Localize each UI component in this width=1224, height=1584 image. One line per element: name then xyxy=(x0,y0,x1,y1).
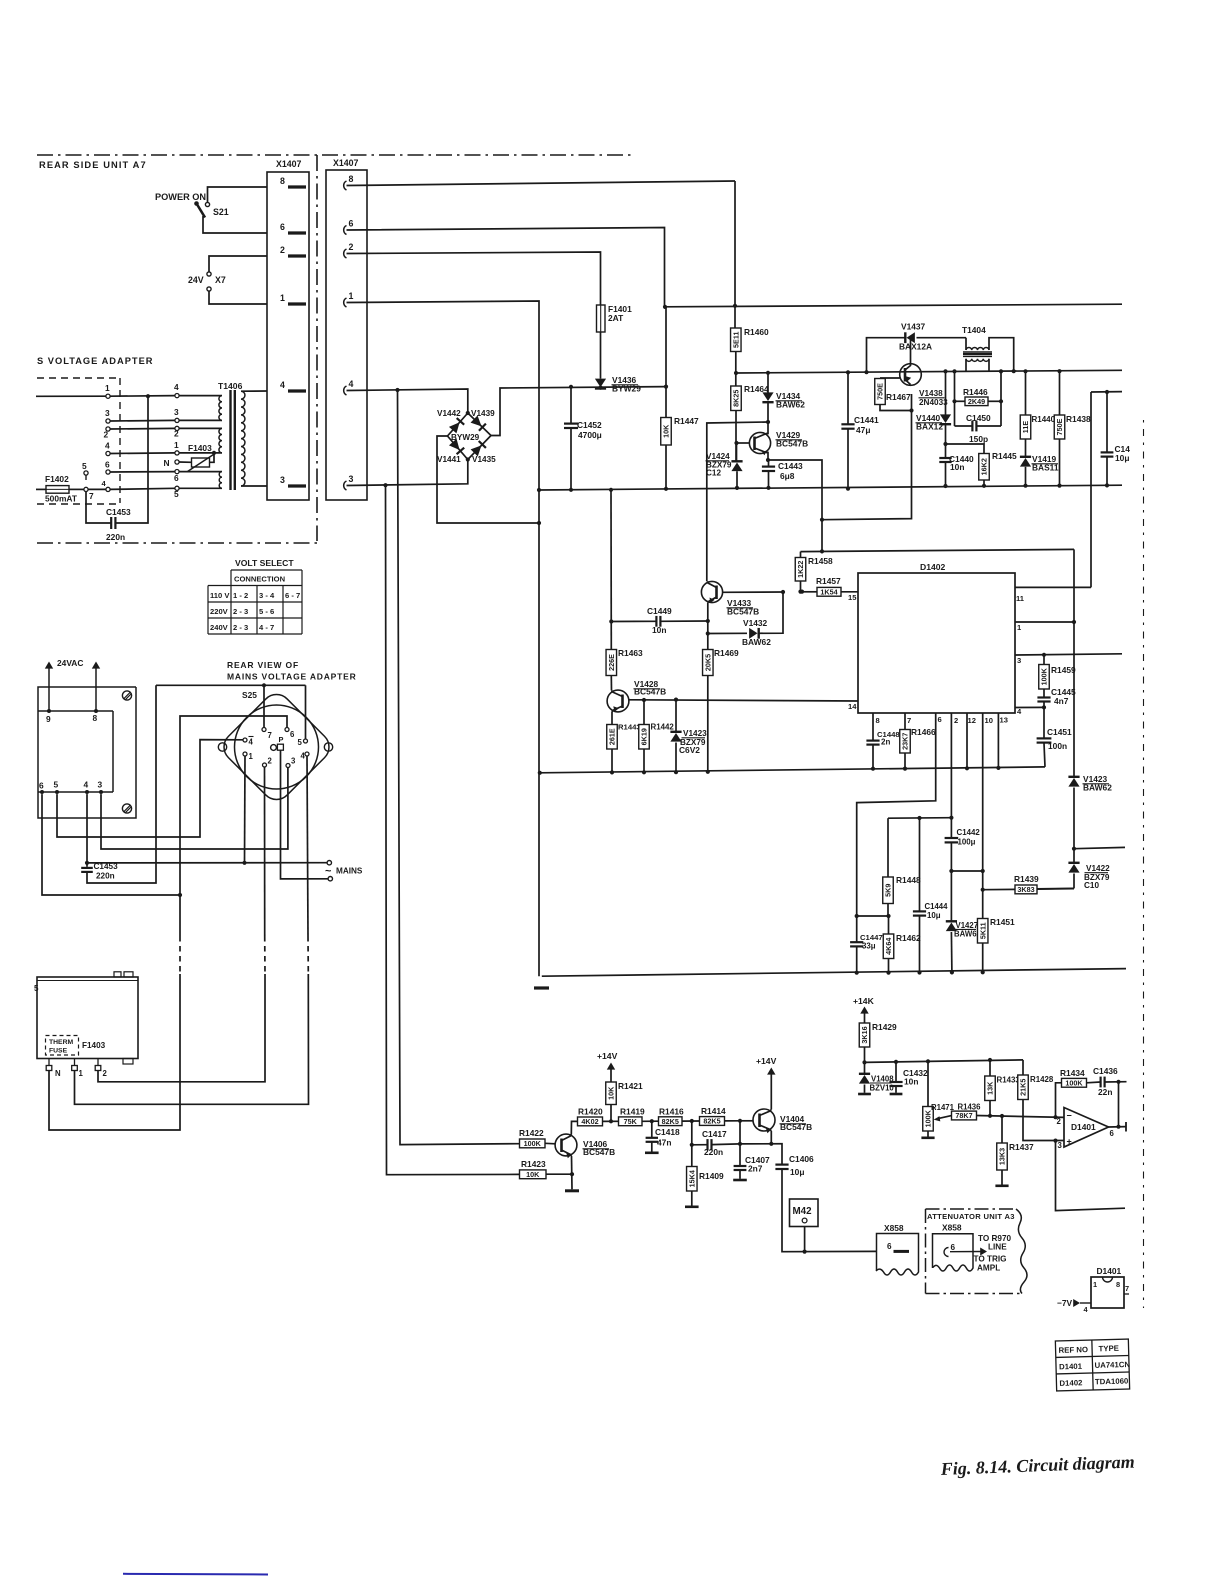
svg-text:8K25: 8K25 xyxy=(732,390,741,407)
wire V1428 base to D1402 pin 14 xyxy=(629,700,858,701)
svg-text:R1469: R1469 xyxy=(714,648,739,658)
dash-dot frame right edge of REAR SIDE UNIT A7 xyxy=(316,155,318,541)
svg-text:R1440: R1440 xyxy=(1032,415,1056,424)
resistor R1446 2K49 xyxy=(965,397,988,406)
svg-text:+: + xyxy=(1067,1137,1072,1147)
svg-text:3K83: 3K83 xyxy=(1017,885,1034,894)
svg-text:500mAT: 500mAT xyxy=(45,494,78,504)
junction pin8 column on top rail xyxy=(733,304,737,308)
svg-text:13K: 13K xyxy=(986,1081,995,1095)
svg-text:750E: 750E xyxy=(1055,418,1064,435)
svg-text:3: 3 xyxy=(291,757,296,766)
transformer terminals N 1 2 xyxy=(48,1059,50,1066)
capacitor C1449 10n xyxy=(611,620,656,622)
svg-text:R1429: R1429 xyxy=(872,1022,897,1032)
svg-text:C10: C10 xyxy=(1084,881,1099,890)
junction bridge bottom vertex xyxy=(466,457,470,461)
capacitor C1451 100n xyxy=(1043,707,1045,738)
capacitor C1447 33u xyxy=(850,941,863,943)
wire X1407-2 pin 4 to bridge xyxy=(347,389,468,413)
svg-text:5: 5 xyxy=(82,461,87,471)
svg-text:10K: 10K xyxy=(607,1086,616,1100)
resistor R1428 21K5 xyxy=(1022,1060,1024,1075)
svg-text:R1458: R1458 xyxy=(808,556,833,566)
svg-text:LINE: LINE xyxy=(988,1243,1007,1252)
diode V1441 xyxy=(449,439,464,454)
junction V1429 emitter node xyxy=(766,458,770,462)
connector X1407 right half xyxy=(326,170,367,500)
svg-text:1: 1 xyxy=(349,291,354,301)
svg-text:100K: 100K xyxy=(924,1109,933,1127)
resistor R1451 5K11 xyxy=(977,919,988,944)
transistor V1433 BC547B xyxy=(701,581,722,602)
socket S25 right ear xyxy=(324,743,332,751)
svg-text:4: 4 xyxy=(349,379,354,389)
plug pin 1 wire to socket pin 4 xyxy=(106,394,110,398)
svg-text:C1441: C1441 xyxy=(854,415,879,425)
svg-text:47n: 47n xyxy=(657,1138,671,1148)
wire 0V rail upper xyxy=(539,485,1122,490)
plug pin 4 wire to socket pin 1 xyxy=(106,451,110,455)
svg-text:3: 3 xyxy=(1058,1141,1063,1150)
blue scan mark xyxy=(123,1573,268,1576)
svg-text:R1419: R1419 xyxy=(620,1107,645,1117)
svg-text:R1433: R1433 xyxy=(997,1076,1021,1085)
page edge dash-dot vertical xyxy=(1143,420,1145,1308)
wire C1447 node to R1448 bottom xyxy=(857,915,889,917)
X1407 left pin 1 xyxy=(288,302,306,305)
svg-text:F1402: F1402 xyxy=(45,474,69,484)
svg-text:REAR VIEW OF: REAR VIEW OF xyxy=(227,660,299,670)
junction pin1 column / 0V rail xyxy=(537,488,541,492)
svg-text:C1444: C1444 xyxy=(925,902,949,911)
svg-text:R1436: R1436 xyxy=(958,1103,982,1112)
svg-text:C1418: C1418 xyxy=(655,1127,680,1137)
svg-text:R1463: R1463 xyxy=(618,648,643,658)
diode V1435 xyxy=(471,441,486,456)
svg-text:15K4: 15K4 xyxy=(687,1170,696,1187)
svg-text:10K: 10K xyxy=(662,424,671,438)
svg-text:BC547B: BC547B xyxy=(780,1122,812,1132)
MAINS terminals xyxy=(327,861,331,865)
svg-text:5: 5 xyxy=(54,780,59,790)
switch S21 xyxy=(194,201,199,206)
resistor R1439 3K83 xyxy=(983,888,1015,890)
svg-text:+14V: +14V xyxy=(756,1056,777,1066)
svg-text:R1434: R1434 xyxy=(1060,1068,1085,1078)
svg-text:10μ: 10μ xyxy=(790,1167,804,1177)
junction V1434 top on rail xyxy=(766,371,770,375)
wire V1404 emitter xyxy=(770,1131,772,1144)
wire F1401 to V1436 xyxy=(600,332,602,379)
svg-text:M42: M42 xyxy=(793,1206,813,1217)
svg-text:33μ: 33μ xyxy=(862,942,876,951)
op-amp D1401 xyxy=(1064,1108,1109,1148)
svg-text:R1459: R1459 xyxy=(1051,665,1076,675)
svg-text:R1447: R1447 xyxy=(674,416,699,426)
svg-text:2: 2 xyxy=(268,757,273,766)
terminal 5 xyxy=(84,471,88,475)
junction V1437 column on rail xyxy=(864,370,868,374)
wire S25 pin2 down to transformer pin 2 xyxy=(264,767,266,936)
long wire pin4 column down to R1422 xyxy=(398,390,520,1145)
X1407 left pin 3 xyxy=(288,484,306,487)
svg-text:VOLT SELECT: VOLT SELECT xyxy=(235,558,294,568)
resistor R1409 15K4 xyxy=(687,1167,698,1192)
resistor R1460 5E11 xyxy=(731,328,742,352)
svg-text:−: − xyxy=(1067,1111,1072,1121)
svg-text:2: 2 xyxy=(104,430,109,440)
capacitor C1406 10u xyxy=(775,1163,788,1165)
svg-text:REAR SIDE UNIT A7: REAR SIDE UNIT A7 xyxy=(39,160,147,170)
svg-text:V1439: V1439 xyxy=(471,409,495,418)
svg-text:R1416: R1416 xyxy=(659,1107,684,1117)
wire terminal 2 stub xyxy=(97,1071,99,1072)
wire X1407-2 pin 8 to R1460 column xyxy=(347,181,736,186)
svg-text:R1442: R1442 xyxy=(651,723,675,732)
svg-text:6: 6 xyxy=(349,219,354,229)
svg-text:TDA1060: TDA1060 xyxy=(1095,1377,1129,1387)
resistor R1440 11E xyxy=(1025,371,1027,415)
svg-text:V1423: V1423 xyxy=(683,729,707,738)
wire bridge left vertex to node xyxy=(437,436,539,523)
wire V1406 collector xyxy=(571,1121,577,1134)
svg-text:22n: 22n xyxy=(1098,1087,1112,1097)
svg-text:BZV10: BZV10 xyxy=(870,1084,895,1093)
svg-text:3: 3 xyxy=(98,780,103,790)
svg-text:100n: 100n xyxy=(1048,741,1067,751)
svg-text:10μ: 10μ xyxy=(927,911,941,920)
svg-text:BC547B: BC547B xyxy=(634,687,666,697)
24VAC arrows xyxy=(48,668,50,711)
svg-text:8: 8 xyxy=(876,716,880,725)
svg-text:C1443: C1443 xyxy=(778,461,803,471)
wire strip pin 4 to MAINS and C1453 xyxy=(86,794,88,861)
plug pin 2 wire to socket pin 2 xyxy=(106,427,110,431)
junction R1460 to 373 rail xyxy=(734,371,738,375)
zener V1424 BZX79 C12 xyxy=(736,443,738,461)
diode V1432 BAW62 xyxy=(708,632,747,634)
svg-text:1: 1 xyxy=(280,293,285,303)
diode V1436 BYW29 xyxy=(595,379,606,388)
svg-text:10n: 10n xyxy=(652,625,666,635)
capacitor C1432 10n xyxy=(894,1060,898,1064)
svg-text:6 - 7: 6 - 7 xyxy=(285,591,300,600)
resistor R1457 1K54 xyxy=(802,591,817,593)
junction C1439 top xyxy=(1105,390,1109,394)
wire switch to X1407 pin 8 xyxy=(208,187,268,202)
svg-text:R1409: R1409 xyxy=(699,1171,724,1181)
svg-text:R1460: R1460 xyxy=(744,327,769,337)
svg-text:S VOLTAGE ADAPTER: S VOLTAGE ADAPTER xyxy=(37,356,154,366)
wire pin3 down to lower route xyxy=(1053,1139,1057,1143)
svg-text:R1446: R1446 xyxy=(963,387,988,397)
T1406 secondary winding xyxy=(241,391,245,486)
junction pin3 wire / long column to R1423 xyxy=(383,483,387,487)
wires T1406 secondary to X1407 xyxy=(241,390,267,392)
svg-text:R1437: R1437 xyxy=(1009,1142,1034,1152)
wire top rail from pin6 to right edge xyxy=(665,304,1123,307)
svg-text:8: 8 xyxy=(349,174,354,184)
svg-text:3K16: 3K16 xyxy=(860,1026,869,1043)
svg-text:THERM: THERM xyxy=(49,1039,74,1046)
wire strip pin 6 xyxy=(42,794,180,895)
wire R1446 C1450 right column xyxy=(1000,371,1002,426)
svg-text:N: N xyxy=(164,458,170,468)
svg-text:14: 14 xyxy=(848,702,857,711)
resistor R1458 1K22 xyxy=(800,552,802,558)
svg-text:T1404: T1404 xyxy=(962,325,986,335)
junction R1464 V1424 V1429 base xyxy=(734,441,738,445)
svg-text:10K: 10K xyxy=(526,1170,540,1179)
wires T1406 primary to socket pins xyxy=(179,395,222,397)
svg-text:5 - 6: 5 - 6 xyxy=(259,607,274,616)
svg-text:R1421: R1421 xyxy=(618,1081,643,1091)
wire V1437 branch xyxy=(867,338,906,373)
wire C1442 to pin10 column xyxy=(951,870,982,872)
wire junction column R1409 xyxy=(691,1121,693,1167)
socket S25 left ear xyxy=(218,743,226,751)
svg-text:4: 4 xyxy=(249,738,254,747)
D1402 pin 4 wire xyxy=(1015,706,1044,708)
svg-text:R1457: R1457 xyxy=(816,576,841,586)
resistor R1436 78K7 xyxy=(952,1111,977,1120)
wire lower rail xyxy=(542,969,1126,977)
X1407 left pin 2 xyxy=(288,254,306,257)
wire V1422 to R1439 xyxy=(1037,887,1074,890)
svg-text:6: 6 xyxy=(290,730,295,739)
transistor V1406 BC547B xyxy=(555,1134,577,1156)
junction pin4 wire / long column to R1422 xyxy=(395,388,399,392)
svg-text:6: 6 xyxy=(938,715,942,724)
wire emitter node to R1458 top wire xyxy=(768,460,822,551)
junction C1447 R1448 node xyxy=(855,914,859,918)
wire S25 pin4 down to transformer pin 1 xyxy=(307,756,308,936)
X1407 left pin 4 xyxy=(288,389,306,392)
svg-text:4: 4 xyxy=(174,382,179,392)
wire 10V rail xyxy=(865,1060,1024,1063)
svg-text:7: 7 xyxy=(907,716,911,725)
resistor R1459 100K xyxy=(1043,655,1045,665)
wire pin11 riser and top xyxy=(1090,392,1092,587)
ground at bottom of pin1 column xyxy=(534,986,549,989)
svg-text:V1422: V1422 xyxy=(1086,864,1110,873)
svg-text:2AT: 2AT xyxy=(608,313,624,323)
svg-text:F1403: F1403 xyxy=(188,443,212,453)
svg-text:F1403: F1403 xyxy=(82,1041,106,1050)
wire strip pin 5 to S25 pin 4bar xyxy=(57,740,243,837)
potentiometer R1471 100K xyxy=(926,1059,930,1063)
svg-text:V1437: V1437 xyxy=(901,322,926,332)
diode V1440 BAX12 xyxy=(945,371,947,415)
svg-text:2K49: 2K49 xyxy=(968,397,985,406)
svg-text:R1439: R1439 xyxy=(1014,874,1039,884)
svg-text:C1453: C1453 xyxy=(106,507,131,517)
svg-text:2n: 2n xyxy=(881,738,890,747)
junction V1422 branch xyxy=(1072,847,1076,851)
resistor R1464 8K25 xyxy=(731,386,742,411)
zener V1422 BZX79 C10 xyxy=(1073,849,1075,863)
resistor R1416 82K5 xyxy=(659,1117,683,1126)
diode V1439 xyxy=(471,415,486,430)
transistor V1428 BC547B xyxy=(607,690,629,712)
junction V1434 bottom node xyxy=(766,420,770,424)
wire pin1 V1423 column xyxy=(1073,549,1075,776)
wire X1407-2 pin 2 to fuse F1401 xyxy=(347,252,601,305)
svg-text:6: 6 xyxy=(280,222,285,232)
svg-text:AMPL: AMPL xyxy=(977,1264,1000,1273)
socket S25 inner circle xyxy=(235,705,319,789)
X1407 right pin 1 xyxy=(344,298,347,307)
svg-text:6: 6 xyxy=(1110,1129,1115,1138)
wire R1446 C1450 left column xyxy=(954,371,956,426)
plug pin 7 wire to socket pin 5 xyxy=(106,487,110,491)
svg-text:13: 13 xyxy=(1000,716,1008,725)
svg-text:3: 3 xyxy=(174,407,179,417)
wire X7 to X1407 pin 2 xyxy=(209,256,267,272)
svg-text:BAS11: BAS11 xyxy=(1032,463,1059,473)
svg-text:1: 1 xyxy=(174,440,179,450)
svg-text:POWER ON: POWER ON xyxy=(155,192,206,202)
junction V1436 on +rail xyxy=(598,386,602,390)
wire branch to right edge xyxy=(1074,847,1125,848)
svg-text:4 - 7: 4 - 7 xyxy=(259,623,274,632)
plug pin 3 wire to socket pin 3 xyxy=(106,419,110,423)
svg-text:P: P xyxy=(279,735,284,744)
svg-text:R1423: R1423 xyxy=(521,1159,546,1169)
diode V1419 BAS11 xyxy=(1025,439,1027,457)
svg-text:R1428: R1428 xyxy=(1030,1075,1054,1084)
dashed box mains voltage adapter xyxy=(37,377,120,379)
svg-text:24VAC: 24VAC xyxy=(57,658,83,668)
svg-text:D1402: D1402 xyxy=(1059,1378,1083,1388)
svg-text:BC547B: BC547B xyxy=(727,607,759,617)
svg-text:BC547B: BC547B xyxy=(583,1147,615,1157)
junction V1433 base wire xyxy=(781,590,785,594)
resistor R1448 5K9 xyxy=(887,818,889,877)
svg-text:8: 8 xyxy=(280,176,285,186)
junction C1441 top on rail xyxy=(846,370,850,374)
svg-text:C6V2: C6V2 xyxy=(679,745,700,755)
svg-text:C1417: C1417 xyxy=(702,1129,727,1139)
svg-text:BAX12A: BAX12A xyxy=(899,342,932,352)
wire V1428 emitter to R1443 xyxy=(611,712,613,725)
svg-text:15: 15 xyxy=(848,593,857,602)
transistor V1429 BC547B xyxy=(749,432,770,453)
wire S25 pin6 down to transformer N xyxy=(180,716,287,936)
fuse F1402 500mAT xyxy=(36,488,46,490)
svg-text:7: 7 xyxy=(89,491,94,501)
resistor R1414 82K5 xyxy=(700,1117,725,1126)
zener V1423 BZX79 C6V2 xyxy=(674,698,678,702)
X1407 right pin 4 xyxy=(344,386,347,395)
svg-text:C1451: C1451 xyxy=(1047,727,1072,737)
svg-text:−7V: −7V xyxy=(1057,1298,1073,1308)
wire T1404 secondary left to rail xyxy=(965,359,967,372)
junction strip pin6 wire xyxy=(178,893,182,897)
svg-text:2 - 3: 2 - 3 xyxy=(233,607,248,616)
junction R1434 to pin2 xyxy=(1053,1115,1057,1119)
wire C1453 node across top xyxy=(156,684,306,686)
junction D1402 pin 1 xyxy=(1072,620,1076,624)
svg-text:1: 1 xyxy=(1093,1280,1097,1289)
table REF NO TYPE xyxy=(1055,1339,1129,1391)
bridge rectifier outline xyxy=(448,413,492,460)
wire R1458 top to pin1 column xyxy=(801,549,1075,551)
junction pin1 column / bridge left wire xyxy=(537,521,541,525)
capacitor C1441 47u xyxy=(847,372,849,423)
junction V1432 node xyxy=(706,631,710,635)
thermal fuse label box xyxy=(46,1036,79,1056)
svg-text:ATTENUATOR UNIT A3: ATTENUATOR UNIT A3 xyxy=(927,1212,1015,1221)
svg-text:S25: S25 xyxy=(242,690,257,700)
svg-text:100K: 100K xyxy=(1065,1078,1083,1087)
resistor R1422 100K xyxy=(520,1139,546,1148)
svg-text:+14V: +14V xyxy=(597,1051,618,1061)
capacitor C1452 4700u xyxy=(570,387,572,423)
screw bottom xyxy=(122,804,131,813)
wire switch to X1407 pin 6 xyxy=(203,216,267,233)
junction R1467 bottom to emitter column xyxy=(909,408,913,412)
svg-text:2: 2 xyxy=(280,245,285,255)
svg-text:R1438: R1438 xyxy=(1066,414,1091,424)
wire to MAINS upper terminal xyxy=(87,862,327,864)
terminal pins 9 8 6 5 4 3 xyxy=(47,709,51,713)
measuring point M42 xyxy=(790,1199,819,1227)
resistor R1429 3K16 xyxy=(859,1023,870,1047)
wire emitter node to V1438 emitter xyxy=(822,394,912,520)
svg-text:1: 1 xyxy=(105,383,110,393)
wire terminal 7 to plug bottom pin xyxy=(88,488,106,490)
svg-text:C1442: C1442 xyxy=(957,828,981,837)
junction bridge top vertex xyxy=(466,411,470,415)
svg-text:R1443: R1443 xyxy=(618,723,641,732)
wire S25 pin1 down xyxy=(244,756,247,863)
svg-text:8: 8 xyxy=(93,713,98,723)
svg-text:REF NO: REF NO xyxy=(1058,1345,1088,1355)
svg-text:1K54: 1K54 xyxy=(820,587,837,596)
svg-text:4K64: 4K64 xyxy=(884,938,893,955)
svg-text:82K5: 82K5 xyxy=(662,1117,679,1126)
svg-text:6μ8: 6μ8 xyxy=(780,471,795,481)
svg-text:UA741CN: UA741CN xyxy=(1094,1360,1130,1370)
svg-text:3: 3 xyxy=(280,475,285,485)
svg-text:23K7: 23K7 xyxy=(901,733,910,750)
svg-text:5: 5 xyxy=(34,984,39,993)
capacitor C1440 10n xyxy=(945,444,947,458)
svg-text:220n: 220n xyxy=(106,532,125,542)
svg-text:MAINS VOLTAGE ADAPTER: MAINS VOLTAGE ADAPTER xyxy=(227,672,357,682)
terminal strip box xyxy=(38,687,136,818)
svg-text:C12: C12 xyxy=(706,469,721,478)
wire T1404 primary right to rail xyxy=(989,338,1014,372)
svg-text:6: 6 xyxy=(174,473,179,483)
svg-text:C1449: C1449 xyxy=(647,606,672,616)
svg-text:21K5: 21K5 xyxy=(1019,1079,1028,1096)
svg-text:150p: 150p xyxy=(969,434,988,444)
resistor R1437 13K3 xyxy=(1000,1114,1004,1118)
svg-text:T1406: T1406 xyxy=(218,381,243,391)
svg-text:R1448: R1448 xyxy=(896,875,921,885)
svg-text:4: 4 xyxy=(301,752,306,761)
svg-text:13K3: 13K3 xyxy=(998,1148,1007,1165)
svg-text:226E: 226E xyxy=(607,654,616,671)
svg-text:BYW29: BYW29 xyxy=(451,433,480,442)
svg-text:D1402: D1402 xyxy=(920,562,946,572)
capacitor C1439 10u xyxy=(1106,392,1108,452)
svg-text:C1452: C1452 xyxy=(577,420,602,430)
wire mains input to pin 1 xyxy=(36,395,106,397)
